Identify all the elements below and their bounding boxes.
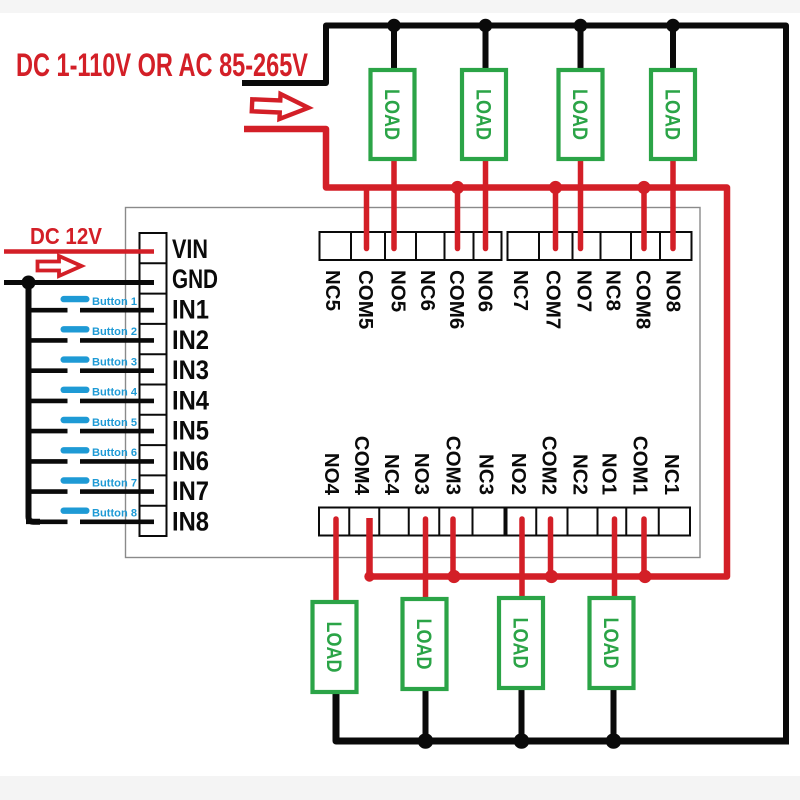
svg-text:NO8: NO8 xyxy=(662,270,685,312)
junction dot COM bus xyxy=(451,181,464,194)
svg-text:Button 8: Button 8 xyxy=(92,508,137,520)
wire COM bus to COM terminal xyxy=(364,188,370,249)
svg-text:IN5: IN5 xyxy=(172,416,209,446)
svg-text:IN4: IN4 xyxy=(172,385,209,415)
svg-text:IN1: IN1 xyxy=(172,294,209,324)
wire NO terminal to load xyxy=(519,519,525,604)
svg-text:GND: GND xyxy=(172,264,218,294)
wire COM terminal to bottom COM bus xyxy=(450,519,456,577)
svg-text:IN2: IN2 xyxy=(172,325,209,355)
wire load to black return bus xyxy=(423,688,429,741)
pushbutton S1 actuator xyxy=(61,296,90,302)
junction dot black return bus xyxy=(514,733,530,749)
svg-text:COM1: COM1 xyxy=(628,436,651,495)
svg-text:NO5: NO5 xyxy=(386,270,409,312)
junction dot COM bus xyxy=(549,181,562,194)
junction dot top bus xyxy=(666,19,680,33)
pushbutton S6 wire right segment to IN6 xyxy=(80,459,154,464)
pushbutton S2 wire right segment to IN2 xyxy=(80,338,154,343)
svg-text:COM5: COM5 xyxy=(354,270,377,329)
wire NO terminal to load xyxy=(333,519,339,604)
junction dot bottom COM bus xyxy=(638,570,651,583)
junction dot bottom COM bus xyxy=(545,570,558,583)
svg-text:NO6: NO6 xyxy=(473,270,496,312)
junction dot ground bus xyxy=(22,276,36,290)
wire top bus to load xyxy=(483,26,489,75)
svg-text:LOAD: LOAD xyxy=(599,618,622,669)
svg-text:COM8: COM8 xyxy=(631,270,654,329)
relay output terminal strip top (K5-K8) xyxy=(320,232,692,260)
wire load to black return bus xyxy=(519,688,525,741)
DC 12V positive red wire to VIN xyxy=(4,249,154,254)
svg-text:NC4: NC4 xyxy=(380,454,403,496)
top margin band xyxy=(0,0,800,13)
svg-text:LOAD: LOAD xyxy=(661,89,684,140)
bottom black return bus wire xyxy=(336,690,789,741)
load LOAD8 xyxy=(590,598,634,688)
svg-text:COM7: COM7 xyxy=(542,270,565,329)
pushbutton S5 actuator xyxy=(61,417,90,423)
pushbutton S3 wire left segment xyxy=(26,368,68,373)
svg-text:Button 6: Button 6 xyxy=(92,447,137,459)
svg-text:Button 2: Button 2 xyxy=(92,326,137,338)
svg-text:NC2: NC2 xyxy=(568,454,591,495)
AC supply black wire: stub, top bus and right-side return xyxy=(242,26,786,742)
junction dot black return bus xyxy=(606,733,622,749)
load LOAD5 xyxy=(313,602,357,692)
svg-text:NO4: NO4 xyxy=(320,453,343,496)
svg-text:NC3: NC3 xyxy=(474,454,497,495)
load LOAD3 xyxy=(559,70,603,159)
svg-text:COM2: COM2 xyxy=(538,436,561,495)
svg-text:DC 12V: DC 12V xyxy=(30,223,103,249)
wire COM bus to COM terminal xyxy=(641,188,647,249)
pushbutton S5 wire right segment to IN5 xyxy=(80,429,154,434)
svg-text:NO2: NO2 xyxy=(507,453,530,495)
pushbutton S8 wire right segment to IN8 xyxy=(80,519,154,524)
junction dot top bus xyxy=(387,19,401,33)
bottom margin band xyxy=(0,776,800,800)
wire NO terminal to load xyxy=(612,519,618,604)
svg-text:NC7: NC7 xyxy=(509,270,532,311)
pushbutton S7 wire right segment to IN7 xyxy=(80,489,154,494)
wire COM terminal to bottom COM bus xyxy=(641,519,647,577)
relay module body xyxy=(126,208,701,558)
corner dot COM4 xyxy=(364,571,374,581)
svg-text:IN8: IN8 xyxy=(172,507,209,537)
pushbutton S1 wire left segment xyxy=(26,308,68,313)
load LOAD1 xyxy=(371,70,415,159)
svg-text:COM3: COM3 xyxy=(442,436,465,495)
wire load to NO terminal xyxy=(578,156,584,249)
pushbutton S1 wire right segment to IN1 xyxy=(80,308,154,313)
DC 12V ground black wire to GND xyxy=(4,280,154,285)
wire COM bus to COM terminal xyxy=(553,188,559,249)
junction dot COM bus xyxy=(637,181,650,194)
junction dot bottom COM bus xyxy=(447,570,460,583)
svg-text:LOAD: LOAD xyxy=(380,89,403,140)
junction dot black return bus xyxy=(418,733,434,749)
svg-text:NO3: NO3 xyxy=(410,453,433,495)
DC supply direction arrow xyxy=(38,256,82,276)
svg-text:Button 4: Button 4 xyxy=(92,387,137,399)
pushbutton S4 wire left segment xyxy=(26,399,68,404)
svg-text:IN6: IN6 xyxy=(172,446,209,476)
ground bus vertical wire xyxy=(29,283,41,522)
svg-text:NC8: NC8 xyxy=(602,270,625,311)
wire load to black return bus xyxy=(333,688,339,741)
load LOAD6 xyxy=(403,599,447,689)
pushbutton S6 actuator xyxy=(61,447,90,453)
pushbutton S4 actuator xyxy=(61,387,90,393)
pushbutton S2 wire left segment xyxy=(26,338,68,343)
pushbutton S2 actuator xyxy=(61,326,90,332)
junction dot top bus xyxy=(479,19,493,33)
svg-text:Button 3: Button 3 xyxy=(92,356,137,368)
svg-text:LOAD: LOAD xyxy=(568,89,591,140)
svg-text:NC1: NC1 xyxy=(660,454,683,495)
svg-text:LOAD: LOAD xyxy=(412,619,435,670)
svg-text:COM4: COM4 xyxy=(350,436,373,496)
svg-text:DC 1-110V OR AC 85-265V: DC 1-110V OR AC 85-265V xyxy=(16,47,308,83)
svg-text:NC6: NC6 xyxy=(416,270,439,311)
svg-text:LOAD: LOAD xyxy=(509,618,532,669)
pushbutton S8 wire left segment xyxy=(26,519,68,524)
wire top bus to load xyxy=(578,26,584,75)
load LOAD7 xyxy=(499,598,543,688)
pushbutton S3 actuator xyxy=(61,356,90,362)
pushbutton S4 wire right segment to IN4 xyxy=(80,399,154,404)
input pin header J1 xyxy=(140,233,167,536)
junction dot top bus xyxy=(574,19,588,33)
wire load to NO terminal xyxy=(670,156,676,249)
wire load to NO terminal xyxy=(483,156,489,249)
load LOAD2 xyxy=(462,70,506,159)
svg-text:Button 7: Button 7 xyxy=(92,477,137,489)
wire top bus to load xyxy=(670,26,676,75)
svg-text:NO7: NO7 xyxy=(572,270,595,312)
svg-text:IN7: IN7 xyxy=(172,476,209,506)
wire COM terminal to bottom COM bus xyxy=(548,519,554,577)
pushbutton S3 wire right segment to IN3 xyxy=(80,368,154,373)
svg-text:COM6: COM6 xyxy=(445,270,468,329)
svg-text:IN3: IN3 xyxy=(172,355,209,385)
AC supply direction arrow xyxy=(251,93,309,120)
wire top bus to load xyxy=(391,26,397,75)
pushbutton S8 actuator xyxy=(61,508,90,514)
load LOAD4 xyxy=(651,70,695,159)
relay output terminal strip bottom (K1-K4) xyxy=(319,508,690,536)
svg-text:Button 1: Button 1 xyxy=(92,296,137,308)
svg-text:LOAD: LOAD xyxy=(472,89,495,140)
pushbutton S7 actuator xyxy=(61,477,90,483)
wire COM bus to COM terminal xyxy=(455,188,461,249)
svg-text:NC5: NC5 xyxy=(321,270,344,311)
wire load to black return bus xyxy=(611,688,617,741)
svg-text:Button 5: Button 5 xyxy=(92,417,137,429)
wire NO terminal to load xyxy=(423,519,429,604)
pushbutton S5 wire left segment xyxy=(26,429,68,434)
AC supply red wire: stub, COM bus top, right drop and COM bus bottom xyxy=(244,129,727,577)
svg-text:LOAD: LOAD xyxy=(322,622,345,673)
svg-text:VIN: VIN xyxy=(172,234,208,264)
svg-text:NO1: NO1 xyxy=(598,453,621,495)
pushbutton S6 wire left segment xyxy=(26,459,68,464)
wire load to NO terminal xyxy=(391,156,397,249)
pushbutton S7 wire left segment xyxy=(26,489,68,494)
